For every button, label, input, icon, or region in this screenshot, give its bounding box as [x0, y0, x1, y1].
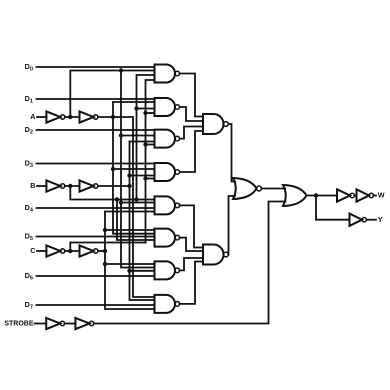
- node B true (junction on B bus): [127, 184, 131, 188]
- wire: between W inverters: [354, 195, 356, 197]
- wire: A bus top into G1 input: [113, 101, 155, 103]
- wire: C-bar tap into G1: [146, 112, 155, 114]
- wire: B-bar vertical bus up to G0 input: [137, 75, 155, 200]
- node A-bar tap to G4: [119, 200, 123, 204]
- node A-bar (junction after first inverter of A): [68, 115, 72, 119]
- nand gate G7 (data D7): [155, 295, 180, 313]
- svg-text:B: B: [30, 181, 35, 190]
- wire: G5 output to N2 input 2: [180, 238, 203, 251]
- wire: A1 out to A2, complement node: [65, 116, 80, 118]
- node B tap to G3: [127, 173, 131, 177]
- inverter B1 (first inverter of B): [46, 180, 64, 191]
- node B-bar bus junction upper: [134, 197, 138, 201]
- input label STROBE: [4, 321, 34, 328]
- wire: G2 output to N1 input 3: [180, 127, 203, 139]
- node B tap to G6: [127, 269, 131, 273]
- inverter W2: [357, 189, 374, 201]
- wire: A true line to bus: [98, 116, 113, 118]
- wire: C-bar vertical bus up to G0 input: [146, 80, 155, 243]
- wire: D3 input line to gate G3: [37, 163, 155, 165]
- wire: B bus top into G2 input: [130, 141, 155, 143]
- nand gate N2 (lower 4-input NAND): [203, 245, 228, 265]
- wire: W2 out to W label: [373, 195, 376, 197]
- node B-bar (junction after first inverter of B): [68, 184, 72, 188]
- wire: B to inverter: [37, 185, 46, 187]
- output label Y: [378, 215, 383, 224]
- wire: G0 output to N1 input 1: [180, 74, 203, 117]
- wire: STROBE line to OR gate input: [94, 202, 286, 324]
- input label D1: [25, 94, 33, 105]
- wire: C true line to bus: [98, 250, 105, 252]
- node C tap to G6: [103, 262, 107, 266]
- svg-text:Y: Y: [378, 215, 383, 224]
- wire: A-bar tap into G2: [121, 135, 155, 137]
- wire: A lower branch down to G7 input: [113, 117, 155, 297]
- inverter W1: [337, 189, 354, 201]
- input label D0: [25, 62, 33, 73]
- node B-bar tap to G1: [134, 106, 138, 110]
- wire: D1 input line to gate G1: [37, 98, 155, 100]
- wire: D4 input line to gate G4: [37, 207, 155, 209]
- node A tap to G3: [111, 167, 115, 171]
- wire: D2 input line to gate G2: [37, 129, 155, 131]
- wire: G1 output to N1 input 2: [180, 107, 203, 121]
- wire: Y1 out to Y label: [366, 219, 376, 221]
- node C-bar (junction after first inverter of C): [68, 249, 72, 253]
- nand gate G1 (data D1): [155, 98, 180, 116]
- svg-text:D4: D4: [25, 203, 34, 214]
- svg-text:C: C: [30, 246, 35, 255]
- inverter C1 (first inverter of C): [46, 245, 64, 256]
- wire: B-bar tap into G1: [137, 108, 155, 110]
- node C-bar tap to G3: [143, 176, 147, 180]
- nand gate G4 (data D4): [155, 196, 180, 214]
- wire: C to inverter: [37, 250, 46, 252]
- wire: B tap into G3: [130, 175, 155, 177]
- svg-text:W: W: [378, 191, 385, 200]
- inverter B2 (second inverter of B): [80, 180, 98, 191]
- wire: A-bar vertical bus down to G6 input: [121, 71, 155, 268]
- wire: NOR1 output to OR1 input 1: [262, 188, 286, 190]
- wire: D5 input line to gate G5: [37, 236, 155, 238]
- nand gate G2 (data D2): [155, 130, 180, 148]
- wire: B-bar riser down, feed into G4 input: [70, 186, 154, 200]
- svg-text:D5: D5: [25, 232, 33, 243]
- inverter A2 (second inverter of A): [80, 111, 98, 122]
- svg-text:D7: D7: [25, 300, 33, 311]
- inverter C2 (second inverter of C): [80, 245, 98, 256]
- inverter S2 (second STROBE inverter): [75, 318, 93, 329]
- wire: D6 input line to gate G6: [37, 275, 155, 277]
- wire: B vertical bus down to G7 input: [130, 142, 155, 301]
- inverter Y1: [350, 214, 367, 226]
- nand gate G5 (data D5): [155, 229, 180, 247]
- wire: A vertical bus down to G5 input: [113, 102, 155, 234]
- wire: C-bar tap into G3: [146, 178, 155, 180]
- wire: A-bar riser up to gate G0 input: [70, 71, 154, 118]
- svg-text:D1: D1: [25, 94, 33, 105]
- node B-bar bus junction lower: [115, 197, 119, 201]
- input label D7: [25, 300, 33, 311]
- nand gate G6 (data D6): [155, 261, 180, 279]
- svg-text:STROBE: STROBE: [4, 321, 34, 328]
- node C true (junction on C bus): [103, 249, 107, 253]
- input label A: [30, 112, 35, 121]
- svg-text:D6: D6: [25, 271, 33, 282]
- input label D3: [25, 159, 33, 170]
- wire: G7 output to N2 input 4: [180, 262, 203, 304]
- input label D2: [25, 125, 33, 136]
- wire: C1 out to C2, complement node: [65, 250, 80, 252]
- node output junction: [314, 193, 318, 197]
- wire: D0 input line to gate G0: [37, 66, 155, 68]
- input label B: [30, 181, 35, 190]
- wire: G4 output to N2 input 1: [180, 205, 203, 247]
- wire: between STROBE inverters: [65, 323, 76, 325]
- svg-text:A: A: [30, 112, 35, 121]
- wire: STROBE to inverter: [35, 323, 47, 325]
- node A-bar tap to G2: [119, 133, 123, 137]
- wire: B true line to bus: [98, 185, 130, 187]
- svg-text:D3: D3: [25, 159, 33, 170]
- input label C: [30, 246, 35, 255]
- nand gate N1 (upper 4-input NAND): [203, 114, 228, 134]
- wire: G3 output to N1 input 4: [180, 131, 203, 172]
- svg-text:D2: D2: [25, 125, 33, 136]
- wire: B1 out to B2, complement node: [65, 185, 80, 187]
- node C-bar tap to G1: [143, 111, 147, 115]
- wire: A tap into G3: [113, 168, 155, 170]
- node A-bar bus top junction: [119, 68, 123, 72]
- node A true (junction on A bus): [111, 115, 115, 119]
- nand gate G0 (data D0): [155, 65, 180, 83]
- wire: C bus top into G4 input: [105, 211, 155, 213]
- wire: N2 output up to NOR1 input 2: [228, 196, 235, 255]
- wire: C-bar tap into G2: [146, 144, 155, 146]
- wire: A-bar tap into G4: [121, 202, 155, 204]
- output label W: [378, 191, 385, 200]
- input label D4: [25, 203, 34, 214]
- wire: C vertical bus down to G7 input: [105, 212, 155, 310]
- node C-bar tap to G2: [143, 142, 147, 146]
- wire: G6 output to N2 input 3: [180, 258, 203, 270]
- wire: OR1 output to W inverters: [307, 195, 338, 197]
- wire: output node down to Y inverter: [316, 196, 350, 220]
- wire: C tap into G5: [105, 229, 155, 231]
- input label D5: [25, 232, 33, 243]
- svg-text:D0: D0: [25, 62, 33, 73]
- wire: B tap into G6: [130, 270, 155, 272]
- wire: D7 input line to gate G7: [37, 304, 155, 306]
- nor gate NOR1: [233, 178, 262, 199]
- node C tap to G5: [103, 228, 107, 232]
- nand gate G3 (data D3): [155, 163, 180, 181]
- inverter S1 (first STROBE inverter): [46, 318, 64, 329]
- wire: A to inverter: [37, 116, 46, 118]
- wire: B-bar bus down to G5 input: [117, 200, 155, 241]
- or gate OR1: [283, 185, 307, 206]
- wire: C-bar riser up and feed to bus: [70, 243, 145, 252]
- wire: N1 output down to NOR1 input 1: [228, 124, 235, 182]
- wire: C tap into G6: [105, 263, 155, 265]
- input label D6: [25, 271, 33, 282]
- inverter A1 (first inverter of A): [46, 111, 64, 122]
